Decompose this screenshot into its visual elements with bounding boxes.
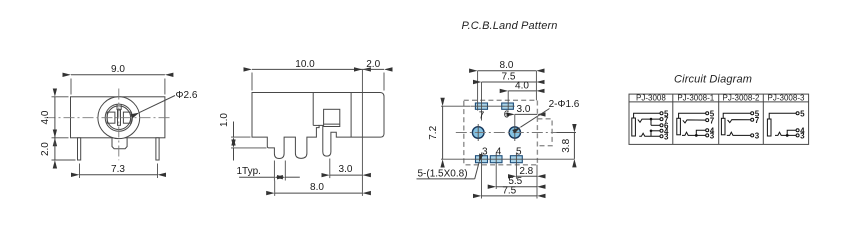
cell1 wire pin6 xyxy=(651,124,660,126)
CIRCUIT-TABLE xyxy=(629,74,809,145)
cell2 terminal 3 xyxy=(706,134,709,137)
svg-text:4: 4 xyxy=(496,147,502,158)
dim 8.0 xyxy=(275,181,363,196)
ext 4.0 left xyxy=(507,91,509,111)
horizontal centerline xyxy=(45,117,173,119)
svg-text:P.C.B.Land Pattern: P.C.B.Land Pattern xyxy=(462,20,558,32)
svg-text:10.0: 10.0 xyxy=(295,59,315,70)
cell1 wire pin4 xyxy=(651,130,660,132)
cell3 wire pin5 xyxy=(723,113,751,118)
front center tab xyxy=(112,138,127,149)
cell3 terminal 7 xyxy=(751,118,754,121)
SIDE-VIEW xyxy=(219,59,384,196)
FRONT-VIEW xyxy=(40,64,198,178)
svg-text:8.0: 8.0 xyxy=(310,182,324,193)
pad 6 xyxy=(502,103,514,109)
cell4 terminal 5 xyxy=(796,112,799,115)
cell1 sleeve xyxy=(632,118,636,136)
front left leg xyxy=(78,138,81,160)
center bar xyxy=(118,110,121,125)
extension line 10/2 boundary xyxy=(361,69,363,195)
svg-text:7.5: 7.5 xyxy=(502,185,516,196)
column line 3 xyxy=(762,94,764,144)
cell4 wire pin4 xyxy=(787,130,796,135)
svg-text:7.5: 7.5 xyxy=(502,72,516,83)
vertical centerline xyxy=(118,89,120,161)
cell1 junction dot 7 xyxy=(650,118,653,121)
cell4 sleeve xyxy=(767,119,771,136)
cell1 terminal 6 xyxy=(660,124,663,127)
cell1 junction dot 4 xyxy=(650,130,653,133)
svg-text:3.8: 3.8 xyxy=(561,138,572,152)
cell4 terminal 3 xyxy=(796,134,799,137)
dashed protrusion xyxy=(537,119,552,146)
cell2 terminal 5 xyxy=(706,112,709,115)
cell4 terminal 4 xyxy=(796,129,799,132)
column line 2 xyxy=(718,94,720,144)
outer circle xyxy=(98,97,140,139)
side body outline xyxy=(252,93,384,159)
svg-text:7.2: 7.2 xyxy=(428,125,439,139)
svg-text:4.0: 4.0 xyxy=(515,81,529,92)
left slot xyxy=(107,112,115,123)
dim 4.0 land xyxy=(508,81,536,92)
svg-text:3: 3 xyxy=(755,132,760,141)
ext 8.0 left xyxy=(477,71,479,111)
cell1 wire pin5 xyxy=(634,113,660,118)
ring outer xyxy=(105,104,132,131)
svg-text:7: 7 xyxy=(710,116,715,125)
svg-text:3.0: 3.0 xyxy=(339,164,353,175)
cell2 terminal 4 xyxy=(706,129,709,132)
hole left crosshair xyxy=(477,124,479,141)
dim 2.8 xyxy=(516,166,537,177)
dim 3.8 xyxy=(557,133,577,159)
pad 3 xyxy=(476,156,488,163)
svg-text:7: 7 xyxy=(479,110,485,121)
dim 7.5 land top xyxy=(482,72,537,83)
hole left xyxy=(472,127,484,139)
label phi2.6 leader xyxy=(139,90,198,113)
cell2 sleeve xyxy=(677,118,681,135)
cell2 terminal 7 xyxy=(706,119,709,122)
top notch xyxy=(117,105,121,110)
label 2-phi1.6 leader xyxy=(521,99,580,127)
svg-text:PJ-3008-3: PJ-3008-3 xyxy=(768,93,805,102)
divider step connector xyxy=(313,124,319,126)
header separator xyxy=(629,101,809,103)
svg-text:PJ-3008-2: PJ-3008-2 xyxy=(723,93,760,102)
cell2 ring contact xyxy=(682,132,706,135)
svg-text:2.0: 2.0 xyxy=(366,59,380,70)
svg-text:3: 3 xyxy=(800,132,805,141)
cell1 bar 7-6 xyxy=(650,119,652,125)
cell1 terminal 3 xyxy=(660,135,663,138)
svg-text:PJ-3008: PJ-3008 xyxy=(636,93,666,102)
cell1 terminal 5 xyxy=(660,112,663,115)
cell3 ring contact xyxy=(727,132,751,135)
switch window xyxy=(324,109,340,126)
cell3 sleeve xyxy=(721,118,725,135)
svg-text:Circuit Diagram: Circuit Diagram xyxy=(674,74,752,86)
cell1 terminal 7 xyxy=(660,118,663,121)
dashed outline xyxy=(464,100,538,165)
ring inner xyxy=(107,106,131,130)
dim 2.0 xyxy=(40,138,76,160)
hole right crosshair xyxy=(514,114,516,141)
cell3 terminal 3 xyxy=(751,134,754,137)
pad 4 xyxy=(490,156,502,163)
front right leg xyxy=(156,138,159,160)
dim 3.0 land xyxy=(515,104,537,115)
svg-text:1Typ.: 1Typ. xyxy=(237,166,261,177)
ext right edge top xyxy=(535,71,537,101)
ext 7.5 top xyxy=(481,82,483,121)
svg-text:5: 5 xyxy=(516,147,522,158)
svg-text:3.0: 3.0 xyxy=(517,104,531,115)
cell1 tip contact wire pin7 xyxy=(638,119,660,122)
svg-text:2.8: 2.8 xyxy=(519,166,533,177)
svg-text:3: 3 xyxy=(664,133,669,142)
cell1 ring contact wire pin3 xyxy=(639,133,660,136)
column line 1 xyxy=(672,94,674,144)
cell4 junction dot xyxy=(786,134,789,137)
top row line xyxy=(471,105,515,107)
cell2 wire pin4 xyxy=(696,130,705,135)
inner vertical line xyxy=(350,93,352,138)
cell4 wire pin5 xyxy=(769,113,796,119)
svg-text:PJ-3008-1: PJ-3008-1 xyxy=(677,93,714,102)
dim 7.2 xyxy=(428,106,471,159)
divider line xyxy=(312,93,314,126)
cell3 tip contact xyxy=(728,120,751,123)
svg-text:3: 3 xyxy=(482,147,488,158)
svg-text:3: 3 xyxy=(710,132,715,141)
hole right xyxy=(509,127,520,138)
cell2 tip contact xyxy=(683,120,706,123)
dim 4.0 xyxy=(40,97,69,138)
LAND-PATTERN xyxy=(417,20,580,199)
bottom row line xyxy=(470,158,574,160)
svg-text:9.0: 9.0 xyxy=(111,64,125,75)
dim 7.3 xyxy=(80,164,158,179)
svg-text:5: 5 xyxy=(800,110,805,119)
dim 8.0 land xyxy=(478,60,537,71)
svg-text:2.0: 2.0 xyxy=(40,142,51,156)
svg-text:4.0: 4.0 xyxy=(40,110,51,124)
label 5-(1.5X0.8) leader xyxy=(417,162,480,179)
right slot xyxy=(123,112,131,123)
ext right edge bottom xyxy=(536,165,538,199)
front body xyxy=(71,97,165,138)
cell4 ring contact xyxy=(775,132,796,135)
svg-text:5-(1.5X0.8): 5-(1.5X0.8) xyxy=(418,169,468,180)
dim 1.0 xyxy=(219,113,267,161)
pad 7 xyxy=(475,103,487,109)
dim 2.0 xyxy=(362,59,384,91)
ext pad3 down xyxy=(481,153,483,199)
svg-text:8.0: 8.0 xyxy=(500,60,514,71)
dim 9.0 xyxy=(71,64,165,94)
window inner line xyxy=(324,123,340,125)
ext pad5 down xyxy=(515,153,517,179)
dim 1Typ xyxy=(237,161,300,181)
cell3 terminal 5 xyxy=(751,112,754,115)
cell2 wire pin5 xyxy=(679,113,706,118)
svg-text:Φ2.6: Φ2.6 xyxy=(176,90,198,101)
dim 3.0 xyxy=(330,159,363,179)
cell2 junction dot xyxy=(695,134,698,137)
ext pad4 down xyxy=(495,153,497,190)
center dashdot through holes xyxy=(456,132,575,134)
dim 7.5 land bottom xyxy=(482,185,538,196)
svg-text:1.0: 1.0 xyxy=(219,113,230,127)
dim 5.5 xyxy=(496,176,537,187)
cell1 terminal 4 xyxy=(660,129,663,132)
svg-text:7.3: 7.3 xyxy=(111,164,125,175)
table outer border xyxy=(629,94,809,144)
cell1 bar 4-3 xyxy=(650,131,652,136)
svg-text:2-Φ1.6: 2-Φ1.6 xyxy=(549,99,580,110)
svg-text:6: 6 xyxy=(504,110,510,121)
svg-text:7: 7 xyxy=(755,116,760,125)
dim 10.0 xyxy=(252,59,362,91)
pad 5 xyxy=(510,156,522,163)
